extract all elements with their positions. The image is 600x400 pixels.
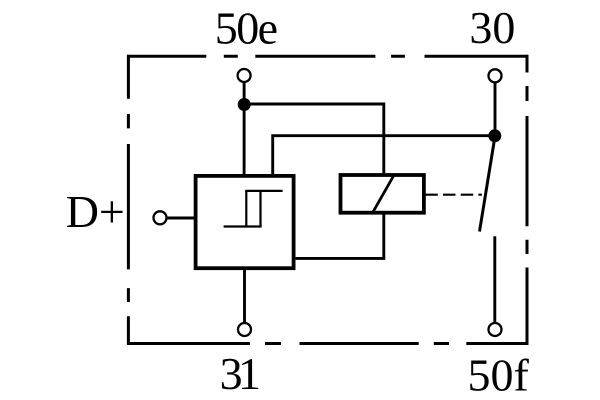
svg-text:31: 31: [220, 348, 261, 399]
svg-text:50f: 50f: [468, 349, 530, 400]
svg-text:50e: 50e: [215, 3, 278, 54]
svg-text:30: 30: [469, 2, 515, 53]
svg-text:D+: D+: [66, 186, 125, 237]
